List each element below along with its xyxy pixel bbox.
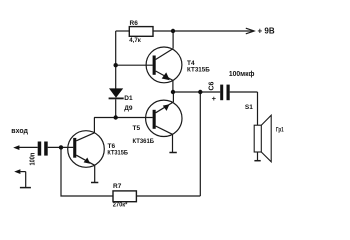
svg-text:+: + [212, 94, 217, 103]
svg-text:4,7к: 4,7к [129, 37, 141, 44]
svg-text:R6: R6 [130, 20, 139, 27]
svg-text:100n: 100n [30, 153, 37, 166]
svg-text:Д9: Д9 [124, 105, 133, 112]
svg-text:КТ315Б: КТ315Б [107, 150, 128, 157]
svg-text:вход: вход [11, 128, 28, 135]
svg-text:С6: С6 [209, 81, 216, 90]
svg-text:Т5: Т5 [133, 125, 141, 132]
svg-text:КТ315Б: КТ315Б [187, 66, 210, 73]
svg-text:+ 9В: + 9В [258, 27, 275, 36]
svg-text:D1: D1 [124, 95, 133, 102]
svg-text:КТ361Б: КТ361Б [133, 138, 155, 145]
svg-text:R7: R7 [113, 183, 122, 190]
svg-text:270к*: 270к* [113, 202, 128, 209]
svg-text:S1: S1 [245, 104, 253, 111]
svg-text:Гр1: Гр1 [276, 127, 284, 134]
svg-text:100мкф: 100мкф [229, 69, 255, 78]
